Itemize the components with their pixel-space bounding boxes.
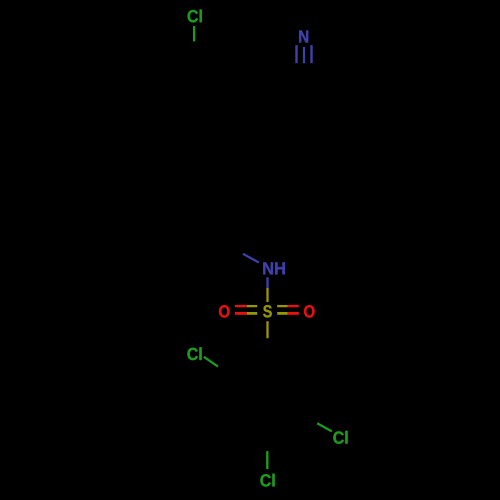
bond C7#N1 triple bond line right (blue half) [310, 45, 312, 63]
atom O2 (right oxygen label) [304, 305, 314, 317]
bond C17-Cl4 (green half-bond, vertical above bottom Cl) [266, 451, 268, 469]
bond N2-S1 yellow half (above S) [266, 288, 268, 302]
bond N2-S1 blue half (below NH) [266, 277, 268, 288]
bond S1=O2 lower line yellow half [277, 312, 287, 315]
bond S1=O1 lower line red half [235, 312, 247, 315]
bond S1=O2 lower line red half [288, 312, 299, 315]
atom N2 (sulfonamide NH label) [263, 262, 285, 274]
bond C12-N2 (blue half-bond into NH from upper-left) [243, 254, 259, 263]
bond C7#N1 triple bond line middle (blue half) [303, 47, 305, 63]
atom S1 (sulfur label) [263, 305, 272, 317]
bond C6-Cl1 (green half-bond below top Cl) [193, 26, 195, 41]
bond C7#N1 triple bond line left (blue half) [295, 45, 297, 63]
bond S1-C13 yellow half (below S toward ring) [266, 321, 268, 338]
bond C14-Cl2 (green half-bond, down-right from left Cl) [204, 357, 218, 367]
atom N1 (nitrile nitrogen label) [299, 30, 308, 42]
atom Cl2 (ring chlorine left label) [187, 347, 201, 360]
atom Cl1 (top chlorine label) [188, 10, 202, 23]
bond S1=O1 upper line yellow half [247, 305, 257, 307]
atom Cl3 (ring chlorine right label) [333, 431, 347, 444]
atom Cl4 (ring chlorine bottom label) [260, 474, 274, 487]
bond S1=O2 upper line red half [288, 305, 299, 307]
bond S1=O1 upper line red half [235, 305, 247, 307]
bond S1=O2 upper line yellow half [277, 305, 287, 307]
bond C16-Cl3 (green half-bond, from ring down-right to right Cl) [317, 423, 332, 431]
atom O1 (left oxygen label) [219, 305, 229, 317]
bond S1=O1 lower line yellow half [247, 312, 257, 315]
